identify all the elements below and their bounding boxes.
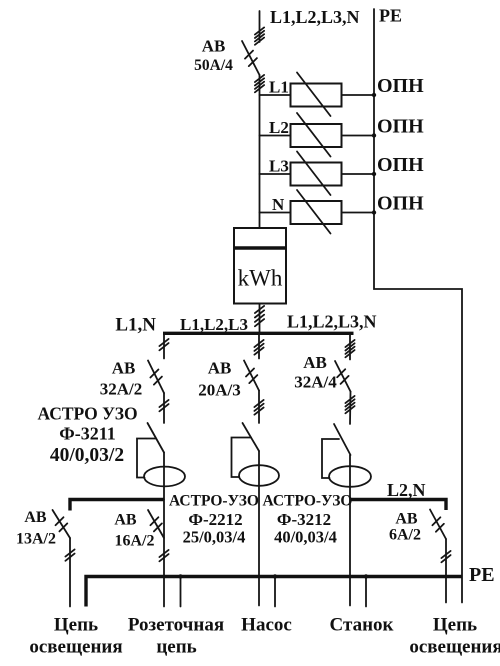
wire kWh meter to main bus — [259, 304, 261, 332]
branch2 3-conductor marks lower — [254, 400, 263, 415]
junction arrester N on PE — [372, 210, 376, 214]
RCD UZO3 linkage bracket — [322, 439, 339, 478]
circuit breaker AB 16A/2 — [148, 510, 164, 538]
svg-text:16А/2: 16А/2 — [115, 533, 155, 550]
svg-text:L3: L3 — [269, 157, 289, 176]
main distribution bus — [163, 332, 354, 335]
surge arrester OPN 2 (L2) — [291, 113, 342, 157]
circuit breaker AB 6A/2 — [430, 510, 446, 540]
main feeder 4-conductor marks lower — [255, 75, 264, 92]
svg-text:Ф-3212: Ф-3212 — [277, 510, 331, 529]
wire PE stub load3 — [274, 577, 276, 607]
branch3 4-conductor marks lower — [345, 396, 354, 413]
wire load5 drop — [445, 539, 447, 603]
wire branch1 mid — [163, 393, 165, 423]
svg-text:ОПН: ОПН — [377, 154, 424, 176]
wire branch3 upper stub — [349, 335, 351, 360]
PE earth bus — [86, 577, 462, 607]
svg-text:Цепь: Цепь — [54, 615, 98, 636]
RCD UZO3 blade — [334, 424, 351, 455]
RCD UZO3 toroid — [329, 466, 371, 487]
circuit breaker AB 32A/2 — [148, 361, 164, 394]
wire main feeder upper stub — [259, 11, 261, 42]
load5 2-conductor marks — [441, 551, 450, 562]
svg-text:25/0,03/4: 25/0,03/4 — [183, 528, 246, 547]
energy meter kWh — [234, 228, 286, 304]
wire N branch to arrester — [260, 212, 291, 214]
wire branch1 to sub bus — [163, 453, 165, 500]
svg-text:РЕ: РЕ — [469, 564, 495, 586]
svg-text:Насос: Насос — [241, 615, 292, 636]
wire branch2 mid — [258, 391, 260, 424]
svg-text:L2,N: L2,N — [387, 480, 426, 500]
wire PE stub load4 — [365, 577, 367, 607]
wire L2 branch to arrester — [260, 135, 291, 137]
svg-text:Станок: Станок — [330, 615, 394, 636]
surge arrester OPN 1 (L1) — [291, 73, 342, 117]
circuit breaker AB 20A/3 — [244, 361, 259, 391]
svg-text:L1: L1 — [269, 78, 289, 97]
RCD UZO1 toroid — [144, 467, 185, 487]
wire load2 drop — [163, 500, 165, 607]
RCD UZO2 blade — [243, 423, 260, 451]
RCD UZO2 toroid — [239, 465, 279, 486]
svg-text:L1,N: L1,N — [115, 315, 156, 336]
svg-text:32А/2: 32А/2 — [100, 380, 143, 399]
svg-text:kWh: kWh — [238, 266, 283, 291]
svg-text:13А/2: 13А/2 — [16, 531, 56, 548]
surge arrester OPN 3 (L3) — [291, 152, 342, 196]
svg-text:50А/4: 50А/4 — [194, 57, 233, 74]
svg-text:6А/2: 6А/2 — [389, 527, 421, 544]
svg-text:освещения: освещения — [29, 637, 122, 658]
wire branch1 upper stub — [163, 335, 165, 359]
wire PE riser — [374, 9, 462, 603]
svg-text:АВ: АВ — [395, 511, 418, 528]
sub bus L2,N (right segment) — [350, 500, 446, 511]
branch1 2-conductor marks upper — [159, 339, 168, 350]
wire branch2 upper stub — [258, 335, 260, 359]
junction arrester L2 on PE — [372, 133, 376, 137]
svg-text:32А/4: 32А/4 — [294, 373, 337, 392]
wire L1 branch to arrester — [260, 94, 291, 96]
svg-text:PE: PE — [379, 6, 402, 26]
wire L3 branch to arrester — [260, 173, 291, 175]
svg-text:АВ: АВ — [24, 509, 47, 526]
svg-text:L1,L2,L3,N: L1,L2,L3,N — [287, 312, 377, 332]
svg-text:АВ: АВ — [202, 37, 226, 56]
wire arrester L1 to PE — [342, 94, 375, 96]
RCD UZO2 linkage bracket — [232, 438, 252, 478]
svg-text:L1,L2,L3: L1,L2,L3 — [180, 315, 248, 334]
junction arrester L1 on PE — [372, 93, 376, 97]
svg-text:АВ: АВ — [303, 353, 327, 372]
svg-text:ОПН: ОПН — [377, 75, 424, 97]
RCD UZO1 blade — [148, 423, 165, 453]
svg-text:АСТРО УЗО: АСТРО УЗО — [37, 404, 137, 424]
svg-text:20А/3: 20А/3 — [198, 381, 241, 400]
junction arrester L3 on PE — [372, 172, 376, 176]
svg-text:Ф-2212: Ф-2212 — [188, 510, 242, 529]
svg-text:40/0,03/4: 40/0,03/4 — [274, 528, 337, 547]
svg-text:Ф-3211: Ф-3211 — [59, 424, 115, 444]
svg-text:АВ: АВ — [112, 359, 136, 378]
svg-text:АСТРО-УЗО: АСТРО-УЗО — [169, 493, 259, 510]
junction PE stub load4 — [364, 574, 368, 578]
wire arrester L3 to PE — [342, 173, 375, 175]
wire branch3 mid — [349, 392, 352, 425]
svg-text:Розеточная: Розеточная — [128, 615, 224, 636]
circuit breaker AB 50A/4 — [242, 41, 260, 75]
svg-text:L2: L2 — [269, 118, 289, 137]
kWh drop 4-conductor marks — [255, 306, 264, 326]
RCD UZO1 linkage bracket — [137, 439, 156, 478]
wire main feeder to kWh meter — [259, 75, 261, 228]
main feeder 4-conductor marks upper — [255, 27, 264, 44]
load1 2-conductor marks — [65, 549, 74, 560]
wire arrester L2 to PE — [342, 135, 375, 137]
circuit breaker AB 13A/2 — [53, 510, 71, 538]
sub bus L1,N (left segment) — [70, 500, 164, 511]
branch3 4-conductor marks upper — [345, 340, 354, 357]
wire load1 drop — [69, 538, 71, 607]
svg-text:освещения: освещения — [409, 637, 500, 658]
svg-text:Цепь: Цепь — [433, 615, 477, 636]
wire PE stub load2 — [180, 577, 182, 607]
surge arrester OPN 4 (N) — [291, 190, 342, 234]
load2 2-conductor marks — [159, 550, 168, 561]
svg-text:L1,L2,L3,N: L1,L2,L3,N — [270, 7, 360, 27]
branch2 3-conductor marks upper — [254, 340, 263, 355]
wire branch2 to load Nasos — [258, 451, 260, 606]
svg-text:N: N — [272, 195, 285, 214]
junction PE stub load3 — [273, 574, 277, 578]
branch1 2-conductor marks lower — [159, 400, 168, 411]
svg-text:40/0,03/2: 40/0,03/2 — [50, 445, 124, 466]
svg-text:цепь: цепь — [156, 637, 196, 658]
circuit breaker AB 32A/4 — [335, 361, 351, 392]
svg-text:АСТРО-УЗО: АСТРО-УЗО — [263, 493, 353, 510]
wire branch3 to load Stanok — [349, 455, 351, 606]
wire arrester N to PE — [342, 212, 375, 214]
svg-text:ОПН: ОПН — [377, 116, 424, 138]
junction PE stub load2 — [178, 574, 182, 578]
svg-text:АВ: АВ — [114, 512, 137, 529]
svg-text:ОПН: ОПН — [377, 193, 424, 215]
svg-text:АВ: АВ — [208, 359, 232, 378]
